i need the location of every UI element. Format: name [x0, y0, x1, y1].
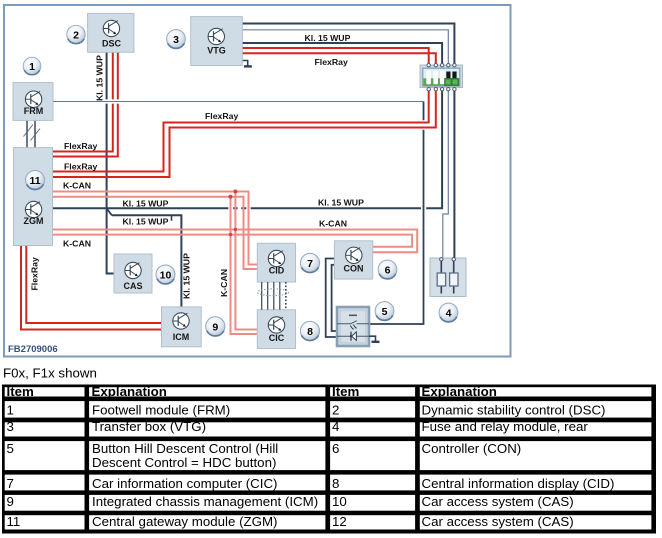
svg-text:2: 2 — [332, 403, 339, 418]
svg-text:4: 4 — [446, 308, 452, 320]
module ZGM — [14, 148, 53, 246]
svg-text:Controller (CON): Controller (CON) — [422, 441, 522, 456]
svg-text:Central gateway module (ZGM): Central gateway module (ZGM) — [92, 514, 277, 529]
svg-text:Explanation: Explanation — [422, 384, 497, 399]
svg-text:FlexRay: FlexRay — [30, 257, 40, 290]
item circle 9 — [206, 317, 225, 336]
svg-text:11: 11 — [29, 175, 40, 187]
legend table — [2, 384, 656, 534]
svg-text:10: 10 — [160, 270, 172, 282]
svg-text:9: 9 — [212, 321, 218, 333]
svg-text:7: 7 — [7, 476, 14, 491]
item circle 6 — [378, 260, 397, 279]
svg-text:K-CAN: K-CAN — [219, 269, 229, 297]
item circle 4 — [439, 303, 458, 322]
svg-text:K-CAN: K-CAN — [63, 239, 91, 249]
svg-text:F0x, F1x shown: F0x, F1x shown — [3, 366, 97, 381]
wire CON left pin2 to HDC button — [332, 265, 337, 331]
fuse and relay module front (green) — [420, 65, 463, 88]
wire Kl.15 WUP DSC vertical down to CAS — [107, 52, 114, 274]
item circle 10 — [156, 265, 175, 284]
fuse module pins — [427, 63, 456, 90]
wire FlexRay ZGM pair2 loop to fuse module pins1-2 — [53, 89, 429, 171]
wire FRM horizontal to button circuit (thin) — [53, 101, 424, 103]
svg-text:Kl. 15 WUP: Kl. 15 WUP — [123, 199, 169, 209]
svg-text:10: 10 — [332, 494, 347, 509]
svg-text:Footwell module (FRM): Footwell module (FRM) — [92, 403, 230, 418]
svg-text:FB2709006: FB2709006 — [8, 344, 58, 355]
svg-text:VTG: VTG — [207, 46, 226, 56]
svg-text:FRM: FRM — [24, 106, 44, 116]
wire fuse pin4 down jog to fuse box rear left — [443, 89, 449, 258]
junction dots K-CAN — [233, 190, 237, 194]
module CIC — [257, 310, 295, 349]
wire FlexRay ZGM down to ICM — [21, 246, 162, 330]
fuse and relay module rear (item 4) — [430, 258, 466, 297]
svg-text:Car information computer (CIC): Car information computer (CIC) — [92, 476, 277, 491]
border frame — [4, 5, 511, 357]
svg-text:K-CAN: K-CAN — [63, 181, 91, 191]
svg-text:9: 9 — [7, 494, 14, 509]
svg-text:Kl. 15 WUP: Kl. 15 WUP — [182, 253, 192, 299]
fuse F1 — [437, 273, 445, 286]
svg-text:7: 7 — [307, 258, 313, 270]
wire FlexRay VTG to fuse module pin1 — [242, 48, 429, 65]
svg-text:3: 3 — [7, 419, 14, 434]
svg-text:6: 6 — [332, 441, 339, 456]
wire Kl.15 WUP VTG to fuse module pin5 — [242, 24, 454, 65]
item circle 1 — [23, 57, 41, 75]
svg-text:3: 3 — [173, 34, 179, 46]
svg-text:Dynamic stability control (DSC: Dynamic stability control (DSC) — [422, 403, 606, 418]
svg-text:FlexRay: FlexRay — [205, 111, 238, 121]
svg-text:Button Hill Descent Control (H: Button Hill Descent Control (Hill — [92, 441, 278, 456]
item circle 11 — [26, 171, 45, 190]
wire Kl.15 WUP line2 to ICM — [112, 215, 182, 307]
svg-text:Item: Item — [332, 384, 359, 399]
svg-text:K-CAN: K-CAN — [319, 219, 347, 229]
svg-text:Explanation: Explanation — [92, 384, 167, 399]
svg-text:11: 11 — [7, 514, 21, 529]
wire FlexRay DSC pair down to ZGM pair1 — [53, 52, 113, 152]
module FRM — [13, 83, 53, 121]
svg-text:2: 2 — [73, 30, 79, 42]
twisted pair FRM-ZGM — [27, 120, 35, 147]
svg-text:Central information display (C: Central information display (CID) — [422, 476, 615, 491]
svg-text:ICM: ICM — [173, 332, 190, 342]
svg-text:1: 1 — [7, 403, 14, 418]
module CID — [257, 243, 295, 282]
item circle 2 — [67, 25, 85, 43]
svg-text:ZGM: ZGM — [24, 216, 44, 226]
svg-text:Kl. 15 WUP: Kl. 15 WUP — [123, 216, 169, 226]
module ICM — [162, 307, 202, 347]
svg-text:5: 5 — [382, 306, 388, 318]
module DSC — [88, 13, 134, 52]
svg-text:Kl. 15 WUP: Kl. 15 WUP — [318, 198, 364, 208]
wire FlexRay VTG to fuse module pin2 — [242, 53, 436, 64]
ground stub HDC button terminal 31 — [369, 336, 376, 341]
svg-text:8: 8 — [332, 476, 339, 491]
svg-text:CAS: CAS — [123, 281, 142, 291]
module CON — [334, 241, 372, 279]
module CAS — [114, 254, 152, 293]
svg-text:DSC: DSC — [102, 39, 122, 49]
svg-text:Fuse and relay module, rear: Fuse and relay module, rear — [422, 419, 589, 434]
svg-text:Integrated chassis management: Integrated chassis management (ICM) — [92, 494, 318, 509]
svg-text:FlexRay: FlexRay — [315, 57, 348, 67]
wire VTG to fuse module pin3 — [242, 43, 442, 65]
ground stub VTG terminal 31 — [242, 61, 248, 66]
svg-text:5: 5 — [7, 441, 14, 456]
harness CID to CIC — [258, 282, 289, 310]
svg-text:CID: CID — [269, 266, 285, 276]
module VTG — [191, 17, 243, 66]
svg-text:Kl. 15 WUP: Kl. 15 WUP — [95, 55, 105, 101]
fuse F2 — [450, 273, 458, 286]
tick on line2 — [171, 215, 173, 221]
svg-text:Descent Control = HDC button): Descent Control = HDC button) — [92, 455, 276, 470]
svg-text:8: 8 — [307, 326, 313, 338]
wire fuse pin5 down to fuse box rear right — [453, 89, 455, 258]
svg-text:FlexRay: FlexRay — [64, 162, 97, 172]
svg-text:FlexRay: FlexRay — [64, 141, 97, 151]
LED in button — [350, 332, 352, 341]
wire thin VTG to fuse module pin4 — [242, 30, 448, 65]
svg-text:Kl. 15 WUP: Kl. 15 WUP — [305, 33, 351, 43]
svg-text:1: 1 — [29, 61, 35, 73]
item circle 3 — [167, 30, 186, 49]
svg-text:12: 12 — [332, 514, 347, 529]
svg-text:Car access system (CAS): Car access system (CAS) — [422, 494, 574, 509]
wire CON left pin1 to HDC button — [326, 259, 337, 338]
item circle 5 — [375, 302, 394, 321]
wire K-CAN pair A from ZGM to CID — [53, 192, 258, 265]
HDC button (item 5) — [337, 307, 369, 346]
svg-text:Transfer box (VTG): Transfer box (VTG) — [92, 419, 206, 434]
svg-text:Car access system (CAS): Car access system (CAS) — [422, 514, 574, 529]
item circle 8 — [300, 321, 319, 340]
item circle 7 — [300, 253, 319, 272]
wire diagonal jog line1 to line2 — [107, 208, 112, 215]
svg-text:CON: CON — [344, 264, 364, 274]
svg-text:4: 4 — [332, 419, 339, 434]
wire Kl.15 WUP line1 fuse pin3 down then left to ZGM (gaps at crossings) — [53, 89, 443, 208]
svg-text:Item: Item — [7, 384, 34, 399]
svg-text:CIC: CIC — [269, 333, 285, 343]
svg-text:6: 6 — [385, 265, 391, 277]
wire K-CAN pair B from ZGM loop to CON — [53, 230, 418, 253]
wire FRM vertical down right side to HDC button — [369, 102, 424, 325]
wire K-CAN branch V1 to CIC — [235, 192, 257, 330]
